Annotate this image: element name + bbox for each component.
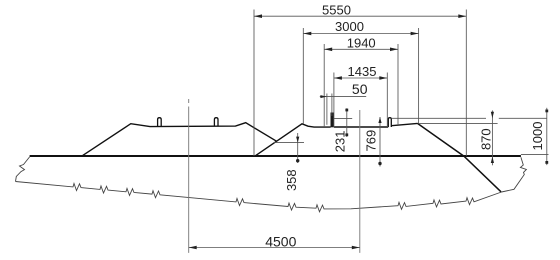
dimension 231 xyxy=(346,108,348,137)
new track base between rails xyxy=(334,126,388,128)
dimension 4500 xyxy=(189,247,360,249)
svg-text:1435: 1435 xyxy=(348,64,377,79)
dimension 769 xyxy=(379,117,381,167)
leader rail-top right xyxy=(391,117,486,119)
existing track centerline xyxy=(188,99,190,103)
right break connector xyxy=(502,157,527,192)
left break connector xyxy=(16,157,30,182)
dimension 3000 xyxy=(303,28,418,124)
existing track left rail xyxy=(158,118,162,126)
new track centerline xyxy=(359,110,361,253)
ground level extension thin line right xyxy=(521,154,549,156)
new embankment profile xyxy=(255,124,330,156)
svg-text:4500: 4500 xyxy=(265,234,296,250)
dimension 1000 xyxy=(546,108,548,165)
svg-text:1940: 1940 xyxy=(347,36,376,51)
leader rail-top left xyxy=(334,117,352,119)
dimension 50 xyxy=(320,94,366,125)
existing embankment profile xyxy=(82,123,277,156)
svg-text:3000: 3000 xyxy=(335,19,364,34)
leader slope intersection xyxy=(274,142,304,144)
new track right rail xyxy=(388,118,391,127)
dimension 1940 xyxy=(324,44,398,127)
svg-text:50: 50 xyxy=(352,81,368,97)
leader shoulder right xyxy=(419,123,498,125)
svg-text:1000: 1000 xyxy=(530,122,545,151)
new track left rail xyxy=(331,113,335,128)
dimension 1435 xyxy=(334,73,387,128)
ground line xyxy=(30,155,521,157)
svg-text:358: 358 xyxy=(284,169,299,191)
existing track right rail xyxy=(214,118,218,126)
svg-text:769: 769 xyxy=(364,130,379,152)
svg-text:870: 870 xyxy=(479,128,494,150)
subsoil wavy line xyxy=(16,182,502,212)
new track surface right of rail xyxy=(391,123,417,125)
dimension 5550 xyxy=(254,10,466,157)
new embankment right slope xyxy=(418,123,502,191)
dimension 870 xyxy=(491,110,493,165)
svg-text:5550: 5550 xyxy=(322,3,351,18)
dimension 358 xyxy=(297,133,299,163)
svg-text:231: 231 xyxy=(333,131,348,153)
